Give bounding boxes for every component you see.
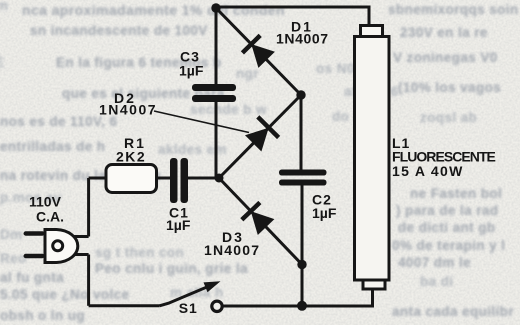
svg-text:15 A 40W: 15 A 40W	[392, 163, 464, 179]
diode D1 line	[216, 8, 301, 95]
diode D2 line	[219, 95, 301, 178]
wire C1 to center node	[188, 177, 219, 180]
svg-text:1µF: 1µF	[312, 205, 337, 221]
svg-text:C.A.: C.A.	[36, 209, 64, 225]
plug hole	[53, 241, 63, 251]
svg-text:1N4007: 1N4007	[204, 242, 260, 258]
svg-text:S1: S1	[179, 300, 198, 316]
wire plug vertical upper branch	[87, 178, 90, 237]
label pointer line D2	[154, 111, 249, 133]
svg-text:1µF: 1µF	[179, 63, 204, 79]
lamp bottom cap	[363, 280, 385, 289]
lamp top cap	[361, 26, 383, 37]
capacitor C1 plates	[170, 158, 188, 203]
capacitor C3 plates	[192, 84, 236, 102]
node A (top)	[211, 3, 220, 12]
wire bottom: corner to switch	[89, 304, 160, 307]
wire plug lower stub	[73, 253, 89, 256]
svg-text:1N4007: 1N4007	[276, 31, 329, 47]
ghost bleed-through text layer	[22, 2, 285, 18]
switch S1 arrowhead	[204, 281, 221, 292]
wire plug vertical lower branch	[87, 255, 90, 306]
node D3/C2 junction	[297, 260, 306, 269]
wire switch to lamp bottom	[223, 289, 372, 306]
svg-text:1µF: 1µF	[166, 217, 191, 233]
node bottom junction	[297, 301, 307, 311]
diode D1 symbol	[242, 35, 275, 68]
plug prong upper	[24, 231, 45, 235]
wire C3 to center node	[215, 102, 218, 178]
switch S1 lever	[160, 284, 215, 306]
diode D3 symbol	[242, 203, 275, 236]
plug body	[45, 230, 78, 263]
capacitor C2 plates	[279, 170, 327, 186]
node center	[215, 174, 224, 183]
switch S1 contact circle	[212, 301, 222, 311]
svg-text:110V: 110V	[29, 194, 62, 210]
wire R1 to C1	[157, 177, 171, 180]
resistor R1 body	[106, 165, 157, 193]
wire top: node A to lamp top	[216, 7, 369, 26]
svg-text:2K2: 2K2	[116, 149, 146, 165]
svg-text:1N4007: 1N4007	[99, 102, 157, 118]
diode D3 line	[219, 178, 302, 265]
wire from plug corner to R1	[89, 177, 106, 180]
node B (right)	[296, 90, 305, 99]
wire plug upper stub	[73, 235, 89, 238]
plug prong lower	[24, 254, 45, 258]
wire C2 to bottom junction	[301, 186, 304, 306]
wire right vertical: node B to C2	[300, 95, 303, 170]
diode D2 symbol	[245, 117, 279, 152]
lamp tube L1	[355, 37, 390, 281]
wire left vertical upper (node A to C3)	[215, 8, 218, 84]
